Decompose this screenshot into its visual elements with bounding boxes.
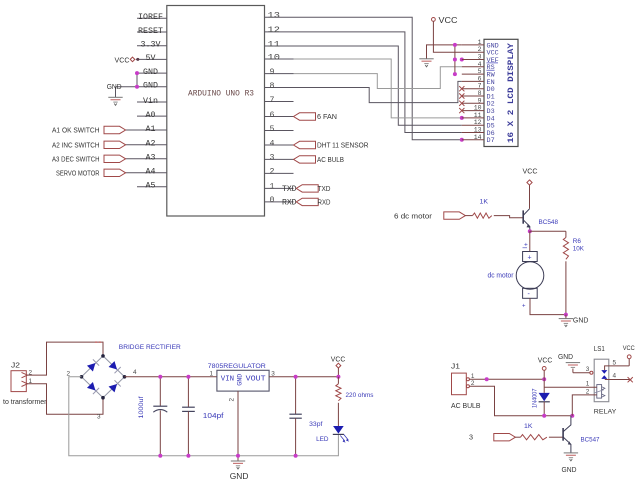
svg-text:1: 1	[586, 381, 590, 388]
arduino right pin 12 stub	[265, 31, 294, 33]
bridge vertex junctions	[101, 354, 105, 358]
svg-text:4: 4	[133, 369, 137, 376]
svg-text:2: 2	[586, 388, 590, 395]
svg-text:220 ohms: 220 ohms	[346, 392, 375, 399]
svg-text:4: 4	[613, 373, 617, 380]
svg-text:D7: D7	[487, 137, 495, 145]
arduino left pin GND stub	[137, 72, 167, 74]
junction J1 pin1 wire	[485, 377, 489, 381]
junction C1 top	[158, 375, 162, 379]
svg-text:6: 6	[478, 75, 482, 82]
svg-text:VCC: VCC	[623, 345, 635, 352]
svg-text:2: 2	[270, 168, 275, 177]
junction emitter node	[528, 229, 532, 233]
svg-text:VCC: VCC	[538, 355, 553, 364]
capacitor C1 1000uf	[159, 377, 161, 406]
svg-text:A3 DEC SWITCH: A3 DEC SWITCH	[52, 156, 100, 163]
bridge rectifier D1-D4 diamond	[82, 356, 125, 398]
wire gnd chain pins 1-3-5	[454, 45, 456, 74]
wire J1 pin1 to VCC node	[469, 378, 544, 380]
svg-text:6 dc motor: 6 dc motor	[394, 213, 433, 220]
svg-text:12: 12	[268, 26, 281, 35]
ground symbol 7805	[231, 460, 245, 462]
no-connect X on LCD pin 8	[459, 93, 464, 98]
junction C1 bottom	[158, 454, 162, 458]
LCD pin 3 stub	[462, 59, 484, 61]
svg-text:11: 11	[268, 40, 281, 49]
junction LCD pin14	[460, 138, 464, 142]
svg-text:5: 5	[478, 68, 482, 75]
resistor R1 220 ohms	[337, 377, 339, 384]
wire arduino pin10 to LCD D4	[294, 59, 462, 118]
relay contact arrows	[601, 370, 607, 374]
svg-text:A1: A1	[146, 125, 156, 134]
svg-text:GND: GND	[562, 465, 578, 474]
svg-text:8: 8	[478, 90, 482, 97]
ground symbol motor	[565, 315, 567, 319]
junction GND1	[135, 71, 139, 75]
IC U1 ARDUINO UNO R3 body	[167, 6, 265, 217]
motor M1 dc motor	[523, 252, 538, 262]
arduino right pin 8 stub	[265, 87, 294, 89]
wire 1K to base	[494, 216, 523, 218]
svg-text:VCC: VCC	[439, 15, 458, 25]
svg-text:7805REGULATOR: 7805REGULATOR	[208, 363, 266, 370]
wire J2 pin2 to bridge top	[26, 342, 103, 375]
svg-text:dc motor: dc motor	[488, 272, 515, 279]
svg-text:1K: 1K	[524, 423, 533, 430]
wire arduino pin13 to LCD D7	[294, 17, 462, 140]
junction VCC rail	[336, 375, 340, 379]
connector tag pin6 FAN	[294, 113, 316, 120]
wire J1 pin2 down to coil rail	[469, 386, 572, 416]
arduino left pin RESET stub	[137, 31, 167, 33]
wire bridge plus rail to 7805 VIN	[125, 376, 217, 378]
wire 7805 gnd pin	[237, 391, 239, 461]
svg-text:AC BULB: AC BULB	[451, 401, 481, 410]
svg-text:7: 7	[270, 96, 275, 105]
svg-text:4: 4	[478, 61, 482, 68]
capacitor C3 33pf	[295, 377, 297, 414]
wire arduino pin9 to LCD RS	[294, 67, 462, 89]
svg-text:GND: GND	[143, 82, 158, 91]
LCD pin 4 stub	[462, 66, 484, 68]
wire arduino pin11 to LCD D5	[294, 46, 462, 125]
svg-text:9: 9	[478, 97, 482, 104]
arduino right pin 9 stub	[265, 73, 294, 75]
svg-text:GND: GND	[236, 373, 243, 385]
svg-text:13: 13	[268, 12, 281, 21]
LCD pin 7 stub	[462, 88, 484, 90]
svg-text:A0: A0	[146, 111, 156, 120]
resistor 1K base BC547	[521, 435, 547, 440]
LCD pin 9 stub	[462, 102, 484, 104]
svg-text:A4: A4	[146, 168, 156, 177]
svg-text:3: 3	[270, 154, 275, 163]
svg-text:1N4007: 1N4007	[531, 388, 538, 408]
svg-text:0: 0	[270, 196, 275, 205]
LED D5	[333, 426, 344, 434]
svg-text:1K: 1K	[480, 199, 489, 206]
ground symbol LCD	[419, 58, 433, 60]
svg-text:GND: GND	[143, 68, 158, 77]
svg-text:1: 1	[471, 373, 475, 380]
junction diode bottom	[542, 414, 546, 418]
svg-text:6: 6	[270, 111, 275, 120]
svg-text:16 X 2 LCD DISPLAY: 16 X 2 LCD DISPLAY	[506, 42, 516, 143]
connector tag dc motor	[444, 212, 466, 219]
connector tag base BC547	[494, 434, 516, 441]
arduino left pin 5V stub	[136, 58, 167, 60]
no-connect X on LCD pin 7	[459, 86, 464, 91]
svg-text:VIN: VIN	[221, 376, 234, 384]
arduino right pin 13 stub	[265, 16, 294, 18]
wire VCC to rail	[337, 368, 339, 377]
connector tag for A4	[104, 169, 126, 176]
wire 1K to BC547 base	[549, 436, 563, 438]
arduino right pin 7 stub	[265, 101, 294, 103]
svg-text:5: 5	[270, 125, 275, 134]
svg-text:10: 10	[474, 105, 482, 112]
junction 7805 gnd rail	[236, 454, 240, 458]
svg-text:5: 5	[613, 359, 617, 366]
junction C3 top	[294, 375, 298, 379]
LCD pin 11 stub	[462, 117, 484, 119]
svg-text:TXD: TXD	[318, 186, 331, 193]
svg-text:13: 13	[474, 127, 482, 134]
LCD pin 8 stub	[462, 95, 484, 97]
junction LCD pin11	[460, 116, 464, 120]
arduino right pin 6 stub	[265, 116, 294, 118]
svg-text:3: 3	[271, 370, 275, 377]
diode D2 bridge top-right	[109, 361, 117, 369]
svg-text:BRIDGE RECTIFIER: BRIDGE RECTIFIER	[119, 344, 181, 351]
ground symbol relay	[566, 362, 580, 364]
svg-text:A1 OK SWITCH: A1 OK SWITCH	[52, 128, 100, 135]
connector tag for A1	[104, 126, 126, 133]
svg-text:LS1: LS1	[594, 346, 605, 353]
arduino right pin 1 stub	[265, 187, 294, 189]
no-connect X on LCD pin 9	[459, 101, 464, 106]
svg-text:6 FAN: 6 FAN	[317, 114, 337, 121]
ground symbol arduino	[115, 87, 117, 98]
svg-text:BC548: BC548	[539, 219, 559, 226]
svg-text:3: 3	[478, 54, 482, 61]
svg-text:Vin: Vin	[143, 96, 158, 106]
arduino left pin A0 stub	[137, 115, 167, 117]
svg-text:A3: A3	[146, 154, 156, 163]
wire arduino pin8 to LCD EN	[294, 81, 462, 102]
junction GND2	[135, 85, 139, 89]
LCD pin 10 stub	[462, 110, 484, 112]
arduino left pin IOREF stub	[137, 17, 167, 19]
svg-text:RELAY: RELAY	[594, 409, 617, 416]
svg-text:VOUT: VOUT	[246, 376, 267, 384]
svg-text:A2: A2	[146, 140, 156, 149]
svg-text:33pf: 33pf	[309, 421, 322, 428]
svg-text:GND: GND	[573, 316, 589, 325]
svg-text:+: +	[528, 254, 532, 261]
svg-text:104pf: 104pf	[203, 413, 224, 420]
svg-text:J2: J2	[11, 362, 20, 369]
svg-text:2: 2	[66, 370, 70, 377]
svg-text:1000uf: 1000uf	[138, 396, 145, 418]
VCC symbol LCD	[432, 18, 436, 22]
LCD pin 14 stub	[462, 139, 484, 141]
arduino left pin A1 stub	[126, 129, 167, 131]
svg-text:VCC: VCC	[523, 167, 539, 176]
LCD pin 1 stub	[462, 44, 484, 46]
svg-text:DHT 11 SENSOR: DHT 11 SENSOR	[317, 143, 369, 150]
wire VCC to diode	[543, 370, 545, 379]
svg-text:9: 9	[270, 68, 275, 77]
wire VCC to BC548 collector	[529, 185, 531, 209]
connector tag pin0 RXD	[296, 198, 318, 205]
svg-text:10K: 10K	[573, 246, 585, 253]
arduino left pin A5 stub	[137, 186, 167, 188]
junction LCD pin5	[453, 72, 457, 76]
svg-text:+: +	[522, 304, 526, 310]
LCD pin 12 stub	[462, 124, 484, 126]
svg-text:4: 4	[270, 139, 275, 148]
svg-text:to transformer: to transformer	[3, 399, 47, 406]
junction C2 bottom	[186, 454, 190, 458]
svg-text:RXD: RXD	[318, 200, 331, 207]
IC LCD 16x2 body	[484, 39, 518, 146]
diode D6 1N4007	[543, 379, 545, 393]
connector tag pin3 AC BULB	[294, 156, 316, 163]
svg-text:GND: GND	[558, 352, 574, 361]
svg-text:GND: GND	[107, 82, 123, 91]
LCD pin 6 stub	[462, 80, 484, 82]
arduino left pin A3 stub	[126, 158, 167, 160]
svg-text:10: 10	[268, 53, 281, 62]
wire 7805 VOUT rail	[269, 376, 338, 378]
wire tag to 1K	[515, 436, 520, 438]
svg-text:14: 14	[474, 134, 482, 141]
diode D1 bridge top-left	[87, 363, 95, 371]
svg-text:1: 1	[270, 183, 275, 192]
svg-text:1: 1	[210, 370, 214, 377]
svg-text:2: 2	[229, 398, 236, 402]
svg-text:LED: LED	[316, 436, 329, 443]
junction C3 bottom	[294, 454, 298, 458]
junction R6 gnd	[564, 313, 568, 317]
arduino left pin GND stub	[116, 86, 167, 88]
connector tag pin1 TXD	[296, 185, 318, 192]
wire arduino pin12 to LCD D6	[294, 32, 462, 133]
wire 220 to LED	[337, 403, 339, 426]
wire bridge minus to bottom gray rail	[69, 377, 339, 456]
diode D3 bridge bottom-left	[87, 382, 95, 390]
resistor 1K base BC548	[473, 213, 492, 218]
arduino right pin 4 stub	[265, 144, 294, 146]
arduino right pin 5 stub	[265, 130, 294, 132]
svg-text:2: 2	[478, 46, 482, 53]
svg-text:AC BULB: AC BULB	[317, 157, 344, 164]
svg-text:12: 12	[474, 119, 482, 126]
transistor Q2 BC547	[562, 428, 564, 441]
arduino right pin 3 stub	[265, 158, 294, 160]
wire motor to gnd rail	[530, 298, 566, 314]
svg-text:7: 7	[478, 83, 482, 90]
junction diode top	[542, 377, 546, 381]
arduino right pin 11 stub	[265, 45, 294, 47]
diode D4 bridge bottom-right	[109, 384, 117, 392]
arduino left pin Vin stub	[137, 101, 167, 103]
arduino left pin A4 stub	[126, 172, 167, 174]
relay coil box	[597, 385, 602, 399]
svg-text:RXD: RXD	[282, 198, 297, 207]
svg-text:1: 1	[478, 39, 482, 46]
svg-text:A2 INC SWITCH: A2 INC SWITCH	[52, 142, 100, 149]
arduino right pin 2 stub	[265, 172, 294, 174]
wire emitter node to motor	[529, 231, 531, 251]
junction C2 top	[186, 375, 190, 379]
wire J2 pin1 to bridge bottom	[26, 384, 103, 415]
capacitor C2 104pf	[187, 377, 189, 407]
svg-text:ARDUINO UNO R3: ARDUINO UNO R3	[188, 89, 254, 98]
connector tag for A3	[104, 155, 126, 162]
arduino left pin A2 stub	[126, 144, 167, 146]
wire tag to R 1K	[465, 215, 472, 217]
red tick at bridge top corner	[95, 341, 103, 343]
svg-text:11: 11	[474, 112, 482, 119]
LCD pin 2 stub	[462, 51, 484, 53]
svg-text:VCC: VCC	[331, 354, 346, 363]
svg-text:5V: 5V	[146, 54, 156, 63]
svg-text:A5: A5	[146, 182, 156, 191]
svg-text:SERVO MOTOR: SERVO MOTOR	[56, 170, 100, 177]
ground symbol BC547	[564, 452, 578, 454]
junction coil rail collector	[570, 414, 574, 418]
svg-text:J1: J1	[451, 364, 460, 371]
arduino left pin 3.3V stub	[137, 45, 167, 47]
connector tag pin4 DHT	[294, 141, 316, 148]
transistor Q1 BC548	[522, 210, 524, 223]
svg-text:VCC: VCC	[115, 55, 131, 64]
arduino right pin 0 stub	[265, 201, 294, 203]
svg-text:IOREF: IOREF	[138, 13, 163, 22]
svg-text:BC547: BC547	[581, 436, 600, 443]
svg-text:+: +	[524, 242, 528, 249]
junction LCD pin3	[453, 58, 457, 62]
wire GND pins tie	[136, 73, 138, 87]
svg-text:3.3V: 3.3V	[141, 41, 161, 50]
LCD pin 13 stub	[462, 132, 484, 134]
svg-text:R6: R6	[573, 238, 582, 245]
wire LCD pin1 to ground	[427, 45, 462, 59]
svg-text:2: 2	[471, 380, 475, 387]
connector tag for A2	[104, 141, 126, 148]
wire VCC to LCD pin2	[433, 21, 461, 52]
arduino right pin 10 stub	[265, 58, 294, 60]
resistor R6 10K	[565, 231, 567, 237]
junction LCD pin1	[453, 43, 457, 47]
svg-text:3: 3	[586, 366, 590, 373]
LCD pin 5 stub	[462, 73, 484, 75]
svg-text:GND: GND	[230, 472, 249, 481]
svg-text:3: 3	[97, 414, 101, 421]
svg-text:TXD: TXD	[282, 185, 297, 194]
svg-text:8: 8	[270, 82, 275, 91]
svg-text:RESET: RESET	[138, 27, 163, 36]
no-connect X on LCD pin 10	[459, 108, 464, 113]
svg-text:3: 3	[469, 432, 473, 441]
wire node to R6	[530, 230, 566, 232]
